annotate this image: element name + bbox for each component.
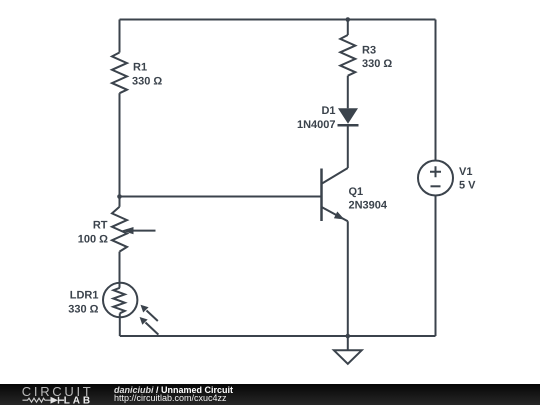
wire bottom rail — [120, 335, 436, 337]
junction node base — [117, 194, 122, 199]
transistor Q1 emitter diagonal — [322, 207, 348, 221]
ground triangle — [334, 350, 362, 364]
wire D1 to Q1 collector — [347, 125, 349, 168]
svg-text:330 Ω: 330 Ω — [68, 303, 98, 315]
svg-text:D1: D1 — [321, 105, 335, 117]
resistor RT — [112, 207, 127, 252]
svg-text:V1: V1 — [459, 166, 472, 178]
svg-text:LAB: LAB — [64, 395, 93, 405]
junction node ground — [346, 334, 351, 339]
wire right rail lower — [435, 196, 437, 337]
wire right rail upper — [435, 20, 437, 161]
svg-text:2N3904: 2N3904 — [349, 199, 388, 211]
wire top rail — [120, 19, 436, 21]
transistor Q1 collector diagonal — [322, 168, 348, 184]
wire R3 to D1 — [347, 76, 349, 109]
V1 plus sign — [430, 166, 441, 177]
LDR1 arrowhead 2 — [140, 317, 148, 325]
wire left rail mid — [119, 93, 121, 207]
svg-text:R3: R3 — [362, 44, 376, 56]
resistor R3 — [340, 35, 355, 76]
LDR1 light arrow 1 line — [147, 311, 158, 322]
svg-text:http://circuitlab.com/cxuc4zz: http://circuitlab.com/cxuc4zz — [114, 393, 227, 403]
svg-text:330 Ω: 330 Ω — [132, 75, 162, 87]
resistor R1 — [112, 53, 127, 94]
svg-text:LDR1: LDR1 — [70, 289, 99, 301]
svg-text:100 Ω: 100 Ω — [78, 233, 108, 245]
svg-text:RT: RT — [93, 220, 108, 232]
svg-text:330 Ω: 330 Ω — [362, 58, 392, 70]
svg-text:Q1: Q1 — [349, 186, 364, 198]
wire emitter down — [347, 221, 349, 336]
svg-text:R1: R1 — [133, 62, 147, 74]
wire LDR1 bottom lead — [119, 313, 121, 336]
diode D1 body — [338, 108, 358, 123]
footer bar — [0, 384, 540, 405]
logo diode — [51, 397, 59, 404]
svg-text:5 V: 5 V — [459, 179, 476, 191]
RT wiper arrowhead — [122, 227, 134, 234]
Q1 emitter arrowhead — [334, 212, 345, 220]
LDR1 light arrow 2 line — [146, 323, 159, 335]
diode D1 cathode bar — [338, 124, 359, 127]
RT wiper arrow line — [130, 230, 156, 232]
wire base — [120, 196, 322, 198]
wire left rail lower — [119, 252, 121, 288]
logo resistor squiggle — [23, 398, 51, 402]
wire middle rail R3 top lead — [347, 20, 349, 36]
wire left rail upper — [119, 20, 121, 53]
junction node top — [346, 17, 351, 22]
LDR LDR1 circle — [103, 283, 137, 317]
ground stub — [347, 336, 349, 350]
V1 minus sign — [431, 185, 441, 187]
svg-text:1N4007: 1N4007 — [297, 119, 336, 131]
voltage source V1 circle — [418, 161, 453, 196]
LDR LDR1 zigzag — [113, 288, 125, 314]
LDR1 arrowhead 1 — [141, 305, 149, 313]
transistor Q1 base bar — [320, 169, 323, 222]
